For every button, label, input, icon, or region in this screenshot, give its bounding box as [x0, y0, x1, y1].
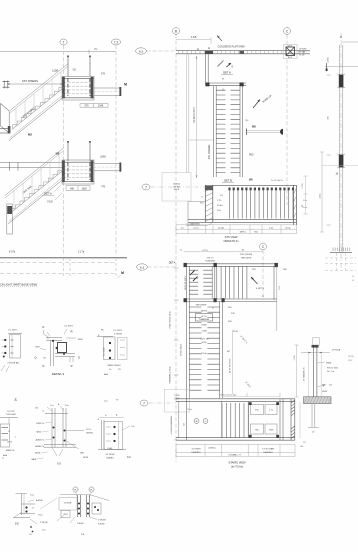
bottom landing right edge beams: [279, 399, 281, 440]
upper-left flight treads (lower plan): [211, 266, 213, 298]
gridline B (top plan): [175, 35, 177, 251]
svg-text:HB6M Tb: HB6M Tb: [6, 450, 15, 452]
svg-text:1948: 1948: [98, 104, 104, 107]
svg-text:9.07a: 9.07a: [9, 251, 16, 254]
column base: [332, 248, 334, 252]
svg-text:P60: P60: [249, 154, 254, 157]
svg-text:2060: 2060: [100, 156, 106, 159]
svg-text:S0 TR@B: S0 TR@B: [106, 454, 116, 456]
bottom dim rows lower plan: [176, 444, 295, 446]
upper platform: [62, 77, 94, 101]
svg-text:C8 TL/2: C8 TL/2: [173, 184, 181, 186]
svg-text:BL/2: BL/2: [288, 57, 292, 59]
beam to grid 7.2 (upper): [94, 87, 121, 89]
handrail post: [89, 56, 91, 77]
svg-text:M: M: [124, 83, 127, 87]
svg-text:LANDING: LANDING: [263, 451, 273, 454]
svg-text:C8 TB: C8 TB: [348, 356, 354, 358]
svg-text:M0TB: M0TB: [83, 457, 89, 459]
svg-text:GB/TB0: GB/TB0: [86, 432, 93, 434]
svg-text:6.3: 6.3: [140, 265, 145, 269]
grid bubble 7 lower: [140, 400, 148, 406]
landing left hatch column: [204, 185, 206, 222]
svg-text:4.77a: 4.77a: [202, 250, 208, 252]
svg-text:PL 938: PL 938: [299, 52, 305, 54]
svg-text:L0NG0a: L0NG0a: [208, 448, 216, 450]
svg-text:DET C: DET C: [240, 232, 247, 234]
gridline 7.2 (elevation): [115, 45, 117, 256]
svg-text:C8 TL: C8 TL: [287, 46, 292, 48]
svg-text:2-1 5/8 TL: 2-1 5/8 TL: [113, 330, 123, 332]
STAIR UP label: [253, 100, 260, 109]
hatched wall strip: [290, 399, 292, 440]
bottom dim rows: [176, 224, 297, 226]
svg-text:P06 TL W-N: P06 TL W-N: [327, 368, 338, 370]
gridline B lower: [175, 250, 177, 462]
mid beam lower plan: [184, 298, 277, 300]
grid bubble C lower: [260, 243, 267, 250]
svg-text:P0: P0: [116, 400, 118, 402]
svg-text:DET A: DET A: [223, 71, 231, 75]
svg-text:C8-LIGHT (PART BASE VIEW): C8-LIGHT (PART BASE VIEW): [0, 283, 37, 287]
svg-text:L0: L0: [352, 280, 354, 282]
svg-text:BL 1/2: BL 1/2: [174, 186, 181, 188]
svg-text:2.17a: 2.17a: [78, 251, 85, 254]
svg-text:2-1 5/8 TL: 2-1 5/8 TL: [8, 330, 18, 332]
svg-text:2.45a 1.17a 2.10a: 2.45a 1.17a 2.10a: [220, 394, 238, 396]
splice plate 1: [339, 75, 344, 87]
svg-text:7.05a: 7.05a: [187, 409, 193, 411]
svg-text:P10B: P10B: [201, 325, 207, 327]
svg-text:LANDING: LANDING: [191, 451, 201, 454]
svg-text:STK VIEW: STK VIEW: [225, 235, 238, 239]
column box at B/7 lower: [165, 390, 190, 413]
svg-text:1/2 TL: 1/2 TL: [86, 429, 91, 431]
svg-text:A-BGN: A-BGN: [36, 499, 43, 502]
svg-text:2’TR@B: 2’TR@B: [114, 334, 122, 336]
landing band bottom edge: [188, 219, 297, 221]
beam to grid 7.2 (lower): [94, 163, 121, 165]
weld symbol: [317, 385, 326, 388]
svg-text:A-A: A-A: [3, 454, 7, 457]
svg-text:4.0Ta: 4.0Ta: [328, 57, 330, 63]
svg-text:6.3: 6.3: [139, 49, 144, 53]
svg-text:TRE DMTS: TRE DMTS: [241, 257, 252, 259]
svg-text:P-BGN: P-BGN: [98, 524, 105, 526]
svg-text:1638: 1638: [81, 188, 87, 190]
svg-text:G: G: [201, 197, 203, 199]
svg-text:2T60 2T0G3 1T.0a: 2T60 2T0G3 1T.0a: [170, 310, 172, 328]
svg-text:C8 Tb: C8 Tb: [7, 442, 12, 444]
svg-text:SMF0 2X0067: SMF0 2X0067: [107, 365, 121, 367]
svg-text:R-B09 Ta: R-B09 Ta: [36, 423, 45, 425]
svg-text:P100: P100: [47, 201, 53, 204]
svg-text:2T HANDRL Tn: 2T HANDRL Tn: [303, 367, 306, 381]
up arrow: [251, 277, 258, 284]
svg-text:GB20: GB20: [36, 432, 41, 434]
mid dim line: [321, 152, 323, 232]
svg-text:STK LOADED: STK LOADED: [208, 144, 211, 159]
grid bubble C: [284, 28, 291, 35]
small dn arrows in flight corner: [190, 271, 195, 276]
svg-text:10.10a: 10.10a: [218, 227, 225, 229]
top level line: [341, 41, 358, 43]
grid bubble B: [173, 28, 180, 35]
svg-text:2’TR@B: 2’TR@B: [40, 522, 48, 524]
svg-text:L0B0L: L0B0L: [107, 448, 112, 450]
landing treads (vertical): [229, 188, 231, 219]
flight 2 handrail: [5, 148, 64, 196]
grid bubble 6.3 upper: [136, 48, 147, 54]
svg-text:SET6 10 S0TS: SET6 10 S0TS: [185, 275, 187, 289]
svg-text:T.LANDING: T.LANDING: [199, 318, 210, 321]
svg-text:911: 911: [73, 69, 77, 72]
svg-text:A1/B20 %: A1/B20 %: [36, 439, 45, 442]
svg-text:4 UPT 5: 4 UPT 5: [256, 288, 265, 290]
svg-text:Q: Q: [34, 355, 36, 359]
dim 946 1638 779: [66, 185, 90, 187]
svg-text:1.7G: 1.7G: [217, 200, 222, 202]
svg-text:R: R: [71, 364, 73, 368]
landing treads vertical (lower plan): [216, 266, 218, 298]
svg-text:1/2: 1/2: [303, 442, 306, 444]
small left dim: [3, 81, 5, 89]
gridline C lower: [262, 250, 264, 300]
svg-text:LIG TYP: LIG TYP: [7, 411, 15, 413]
svg-text:2T60 2T0G3: 2T60 2T0G3: [181, 343, 183, 356]
stairwell wall line at B: [186, 54, 188, 173]
flight 2 top stringer: [10, 170, 64, 214]
svg-text:7.2: 7.2: [114, 40, 119, 44]
svg-text:K: K: [42, 325, 44, 329]
flight 1 treads: [13, 87, 64, 128]
svg-text:ORD2LTD fm: ORD2LTD fm: [224, 240, 239, 243]
svg-text:BArB: BArB: [32, 458, 37, 461]
detail L-L: [73, 487, 78, 492]
flight 1 balusters: [15, 108, 17, 126]
svg-text:DET B: DET B: [201, 311, 208, 313]
svg-text:W608: W608: [326, 363, 332, 365]
section C marker: [246, 130, 283, 132]
bottom landing mid treads: [221, 403, 223, 438]
svg-text:1B-P1 TB S0TS: 1B-P1 TB S0TS: [230, 358, 232, 373]
grid bubble 7 (plan): [142, 184, 150, 190]
right column elevation top: [340, 35, 342, 38]
svg-text:SKT RISERS: SKT RISERS: [22, 79, 38, 83]
svg-text:M2: M2: [28, 133, 32, 137]
svg-text:1/2”Rx0B: 1/2”Rx0B: [332, 350, 341, 352]
svg-text:MD: MD: [252, 126, 256, 129]
svg-text:7.4’ W STAIR: 7.4’ W STAIR: [262, 448, 275, 451]
dim arrow top: [301, 352, 330, 354]
handrail post: [67, 56, 69, 77]
svg-text:B T.O: B T.O: [202, 316, 207, 318]
handrail post detail top box: [313, 338, 320, 346]
treads (plan): [216, 89, 240, 91]
grid 7 beam lower plan: [176, 398, 295, 400]
svg-text:50TS: 50TS: [202, 342, 208, 344]
lower platform: [62, 160, 94, 184]
svg-text:DETAIL 3: DETAIL 3: [52, 372, 65, 376]
svg-text:GB0: GB0: [80, 453, 84, 455]
column shaft: [338, 45, 340, 252]
flight 2 balusters: [13, 191, 15, 211]
base column: [7, 204, 13, 234]
svg-text:TRE DMGE: TRE DMGE: [196, 305, 208, 307]
handrail post lower 2: [89, 142, 91, 162]
svg-text:CONCRETE PLATFORM: CONCRETE PLATFORM: [218, 45, 245, 48]
long flight stringers: [219, 302, 221, 399]
flight 1 handrail: [10, 64, 68, 111]
dim 979 1948: [80, 102, 108, 104]
concrete block: [304, 397, 332, 404]
gridline 7 (elevation): [63, 45, 65, 256]
svg-text:DET A: DET A: [169, 262, 176, 265]
svg-text:T.LANDING: T.LANDING: [205, 260, 216, 263]
svg-text:7: 7: [145, 185, 147, 189]
svg-text:G: G: [98, 419, 100, 421]
svg-text:K-K: K-K: [127, 457, 131, 459]
DN arrow: [218, 61, 224, 67]
svg-text:S-S: S-S: [57, 464, 61, 466]
detail circles: [194, 419, 199, 424]
svg-text:HB0B4 Tb: HB0B4 Tb: [35, 446, 44, 448]
svg-text:(fm TO fm): (fm TO fm): [231, 465, 243, 468]
svg-text:DET B: DET B: [224, 179, 232, 183]
long flight treads: [189, 306, 219, 308]
detail E-E: [16, 493, 28, 495]
svg-text:1.7G5: 1.7G5: [174, 395, 179, 397]
grid bubble 7.2: [111, 39, 120, 45]
right labels: [317, 362, 325, 363]
svg-text:2T60 (23063): 2T60 (23063): [240, 254, 253, 256]
svg-text:L2: L2: [352, 276, 354, 278]
left dim: [296, 345, 298, 397]
svg-text:LIG: LIG: [35, 408, 39, 410]
level line mid: [322, 165, 358, 167]
landing header beam: [206, 82, 247, 84]
svg-text:TOGLIGHT: TOGLIGHT: [6, 414, 17, 416]
svg-text:A-A: A-A: [104, 373, 108, 376]
anchor rod: [311, 404, 313, 427]
svg-text:P1 0a: P1 0a: [201, 353, 207, 355]
svg-text:2’TR@B: 2’TR@B: [98, 520, 106, 522]
level line 2: [325, 66, 358, 68]
svg-text:STAIRS VIEW: STAIRS VIEW: [228, 461, 246, 465]
flight 2 treads: [11, 170, 63, 212]
svg-text:1G: 1G: [220, 195, 223, 197]
svg-text:979: 979: [85, 104, 90, 107]
svg-text:7: 7: [63, 40, 65, 44]
svg-text:4.0 HIGH LANDING: 4.0 HIGH LANDING: [170, 415, 173, 434]
svg-text:J: J: [15, 437, 16, 439]
bottom landing left box: [178, 401, 180, 438]
svg-text:GRO: GRO: [35, 346, 40, 348]
column box at B/7: [162, 173, 191, 202]
left stringer beams: [186, 266, 188, 440]
svg-text:4.07a: 4.07a: [320, 193, 322, 199]
flight 1 bottom stringer: [9, 97, 64, 141]
top beam lower plan: [184, 263, 277, 265]
svg-text:M01B: M01B: [35, 453, 41, 455]
dim line SKT RISERS: [7, 83, 63, 85]
handrail post lower: [67, 142, 69, 162]
svg-text:P-BGN: P-BGN: [77, 523, 84, 525]
svg-text:2.17a: 2.17a: [193, 227, 199, 229]
flight 1 top stringer: [12, 88, 64, 130]
svg-text:SP80: SP80: [78, 339, 84, 341]
svg-text:TL 1/2: TL 1/2: [299, 55, 304, 57]
svg-text:2T6B: 2T6B: [202, 331, 208, 333]
svg-text:1T-P1 TB: 1T-P1 TB: [200, 339, 209, 341]
svg-text:7: 7: [143, 401, 145, 405]
svg-text:Pa 10 10a Pa: Pa 10 10a Pa: [271, 180, 284, 182]
vertical dim line left of flight: [196, 56, 198, 178]
svg-text:2T6 T.0: 2T6 T.0: [207, 258, 215, 260]
svg-text:4.63L: 4.63L: [191, 36, 198, 39]
svg-text:STAIRWELL 1T.0a: STAIRWELL 1T.0a: [169, 366, 172, 384]
grid bubble 7: [60, 39, 67, 45]
right beam lower plan: [273, 266, 275, 300]
svg-text:DET A: DET A: [44, 192, 52, 196]
svg-text:MD: MD: [249, 179, 253, 182]
bottom beam: [176, 437, 295, 439]
svg-text:G: G: [78, 355, 80, 359]
post shaft: [312, 345, 314, 397]
svg-text:K: K: [42, 364, 44, 368]
svg-text:R: R: [71, 329, 73, 333]
top datum line: [0, 51, 116, 53]
svg-text:4.6’ HIGH: 4.6’ HIGH: [191, 449, 201, 451]
svg-text:20B0BG: 20B0BG: [106, 458, 114, 460]
svg-text:2’TR@B BA: 2’TR@B BA: [7, 362, 19, 365]
svg-text:978: 978: [101, 73, 106, 76]
svg-text:W-BV: W-BV: [322, 391, 328, 393]
svg-text:DIGWALL 7.7: DIGWALL 7.7: [229, 454, 243, 457]
svg-text:3% RN 10 NTS: 3% RN 10 NTS: [194, 107, 196, 123]
svg-text:C8 T0P2: C8 T0P2: [299, 49, 306, 51]
svg-text:D0 - Tm: D0 - Tm: [327, 371, 335, 373]
upper landing: [205, 54, 207, 86]
svg-text:TL: TL: [2, 458, 4, 460]
mid floor beam: [0, 162, 64, 164]
column at C/6.3: [284, 45, 298, 59]
svg-text:M: M: [121, 271, 124, 275]
svg-text:1/4: 1/4: [29, 534, 32, 536]
vertical dim right of flight: [232, 330, 234, 394]
svg-text:E-E: E-E: [15, 524, 19, 526]
top dim row lower plan: [184, 251, 263, 253]
svg-text:2’TR@B: 2’TR@B: [64, 503, 72, 505]
svg-text:TL 1/2@B: TL 1/2@B: [104, 347, 106, 357]
splice plate 2: [339, 155, 344, 167]
svg-text:P1 Ba: P1 Ba: [217, 205, 223, 207]
bottom landing right boxes: [251, 405, 264, 415]
landing band top edge: [205, 184, 297, 186]
flight 2 bottom stringer: [8, 179, 64, 224]
base line: [0, 257, 127, 259]
svg-text:1/2 0: 1/2 0: [348, 360, 352, 362]
top beam grid 6.3: [176, 50, 310, 52]
landing right edge: [293, 185, 295, 225]
grid bubble 6.3 lower: [137, 264, 148, 270]
stair flight stringers (plan): [213, 86, 215, 177]
gridline C (top plan): [286, 35, 288, 206]
small left dim stack: [305, 176, 307, 214]
flight 1 base landing box: [1, 104, 10, 134]
svg-text:10.0a: 10.0a: [285, 227, 291, 229]
svg-text:2-1 5/8 TL: 2-1 5/8 TL: [64, 325, 74, 327]
svg-text:T.2 LANDING: T.2 LANDING: [186, 223, 200, 226]
